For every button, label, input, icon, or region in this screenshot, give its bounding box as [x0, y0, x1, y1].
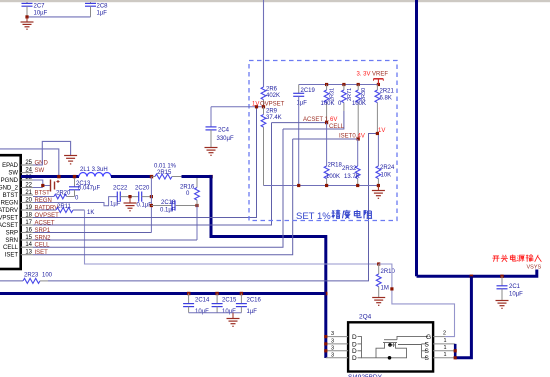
CJK glyph: ru	[535, 255, 542, 262]
svg-text:3. 3V: 3. 3V	[357, 72, 371, 78]
svg-text:3: 3	[331, 345, 334, 351]
dashed outline box	[249, 61, 397, 221]
svg-text:1µF: 1µF	[297, 101, 308, 107]
svg-text:18: 18	[25, 213, 32, 219]
CJK glyph: jing (precision)	[332, 210, 341, 219]
svg-text:S: S	[425, 355, 430, 362]
internal mosfet drawing	[362, 357, 408, 359]
wire top feed to 2R6	[263, 0, 265, 87]
node OVPSET 1V wire	[211, 106, 264, 108]
pin 20 stub	[21, 202, 33, 204]
ground under 2C1	[496, 300, 509, 302]
resistor 2R10 1M	[378, 264, 380, 274]
junction mid ground	[128, 195, 131, 198]
svg-text:BATDRV: BATDRV	[0, 208, 18, 214]
svg-text:SRN: SRN	[5, 238, 18, 244]
svg-text:VREF: VREF	[372, 72, 388, 78]
wire OVPSET row to riser	[33, 107, 257, 218]
svg-text:2L1 3.3uH: 2L1 3.3uH	[80, 167, 108, 173]
resistor 2R31 100K	[326, 85, 328, 91]
junction at thick corner	[209, 175, 212, 178]
svg-text:100: 100	[42, 273, 53, 279]
pin 15 stub	[21, 239, 33, 241]
svg-text:ACSET: ACSET	[0, 223, 18, 229]
svg-text:6V: 6V	[330, 117, 337, 123]
svg-text:2C20: 2C20	[135, 186, 150, 192]
capacitor 2C16 1uF	[240, 294, 242, 304]
svg-text:37.4K: 37.4K	[266, 115, 282, 121]
svg-text:20: 20	[25, 198, 32, 204]
wire SW thick: right of 2R15, corner down, right, down to 2Q4 drains	[182, 177, 326, 359]
svg-text:2R20: 2R20	[56, 191, 71, 197]
svg-text:10µF: 10µF	[222, 309, 236, 315]
wire CELL row to riser	[33, 129, 283, 247]
junction 2C14	[187, 292, 190, 295]
svg-text:BTST: BTST	[35, 191, 51, 197]
svg-text:G: G	[426, 334, 431, 341]
svg-text:BTST: BTST	[3, 193, 19, 199]
svg-text:D: D	[352, 355, 357, 362]
junction VSYS/2C1	[500, 275, 503, 278]
pin 18 stub	[21, 217, 33, 219]
junctions of D stubs on thick rail	[324, 335, 327, 338]
svg-text:2R24: 2R24	[380, 165, 395, 171]
capacitor 2C19 1uF	[298, 85, 300, 94]
wire ISET row to riser	[33, 139, 293, 255]
CJK glyph: du (degree)	[342, 210, 350, 219]
junction at SRP tap	[150, 175, 153, 178]
capacitor 2C7	[26, 2, 28, 3]
resistor 2R23 100	[0, 280, 23, 282]
svg-text:10µF: 10µF	[34, 11, 48, 17]
svg-text:0.047µF: 0.047µF	[78, 186, 100, 192]
wire SRP riser (2R15 left sense)	[150, 177, 152, 233]
node 1V (2R21/2R24 junction)	[376, 132, 379, 135]
svg-text:1µF: 1µF	[97, 11, 108, 17]
wire SW thick segment inductor to 2R15	[111, 175, 153, 178]
node CELL	[283, 111, 344, 129]
resistor 2R18 100K	[326, 123, 328, 166]
svg-text:1V: 1V	[252, 102, 259, 108]
resistor 2R9 37.4K	[263, 107, 265, 115]
pin 14 stub	[21, 246, 33, 248]
sheet top border	[0, 0, 550, 2]
svg-text:GND_2: GND_2	[0, 186, 19, 192]
ground for GND pin	[64, 155, 77, 157]
svg-text:2C4: 2C4	[218, 128, 230, 134]
svg-text:17: 17	[25, 220, 32, 226]
svg-text:100K: 100K	[326, 174, 340, 180]
capacitor 2C15 10uF	[216, 294, 218, 304]
ground between 2C22/2C20	[129, 197, 131, 203]
svg-text:REGN: REGN	[35, 198, 52, 204]
resistor 2R20 (BTST)	[33, 196, 54, 198]
pin 22 stub	[21, 187, 33, 189]
svg-text:6.8K: 6.8K	[380, 96, 392, 102]
svg-text:1K: 1K	[87, 210, 94, 216]
svg-text:2R9: 2R9	[266, 109, 278, 115]
D labels inside	[352, 334, 357, 362]
node ACSET 1.6V	[272, 122, 327, 124]
svg-text:100K: 100K	[352, 101, 366, 107]
IC U2 body	[0, 155, 21, 269]
svg-text:2C18: 2C18	[161, 200, 176, 206]
svg-text:2R16: 2R16	[180, 185, 195, 191]
ground under 2C7	[26, 17, 28, 22]
junction at 2C13 tap	[73, 175, 76, 178]
svg-text:13.7K: 13.7K	[344, 174, 360, 180]
resistor 2R24 10K	[377, 135, 379, 166]
CJK glyph: shu	[526, 255, 533, 262]
resistor 2R6 402K	[261, 87, 266, 100]
svg-text:EPAD: EPAD	[2, 163, 19, 169]
svg-text:2R32: 2R32	[342, 166, 357, 172]
svg-text:ACSET: ACSET	[35, 221, 55, 227]
wire 2C19 down to bottom rail	[298, 96, 300, 185]
pin 21 stub	[21, 194, 33, 196]
svg-text:1: 1	[444, 345, 447, 351]
CJK glyph: dian	[510, 255, 516, 262]
capacitor 2C1 10uF	[501, 276, 503, 286]
svg-text:3: 3	[331, 331, 334, 337]
svg-text:SW: SW	[35, 168, 45, 174]
polarized capacitor (maroon) at pin22/23	[33, 180, 50, 186]
ground on cap bottom rail	[232, 313, 234, 319]
ground at rail right end	[377, 186, 379, 191]
capacitor 2C14 10uF	[188, 294, 190, 304]
resistor 2R21 6.8K	[376, 85, 378, 91]
capacitor 2C4 330uF	[210, 107, 212, 127]
svg-text:330µF: 330µF	[217, 136, 234, 142]
pin 19 stub	[21, 209, 33, 211]
resistor 2R15 0.01 1%	[153, 176, 156, 178]
G / S labels inside	[425, 334, 432, 362]
pin 13 stub	[21, 254, 33, 256]
svg-text:SRN2: SRN2	[35, 236, 52, 242]
svg-text:2: 2	[443, 331, 446, 337]
resistor 2R71	[343, 85, 345, 91]
svg-text:2R71: 2R71	[347, 88, 353, 101]
svg-text:OVPSET: OVPSET	[260, 102, 285, 108]
svg-text:VSYS: VSYS	[527, 265, 542, 271]
junction 2C15	[215, 292, 218, 295]
svg-text:16: 16	[25, 228, 32, 234]
wire thick VSYS vertical from top	[415, 0, 418, 276]
svg-text:2R15: 2R15	[157, 170, 172, 176]
svg-text:CELL: CELL	[35, 243, 51, 249]
svg-text:GND: GND	[35, 161, 49, 167]
junction at 2C18 right / 2R16 bottom	[195, 204, 198, 207]
junction at x58.8	[57, 175, 60, 178]
svg-text:SRP: SRP	[6, 231, 18, 237]
svg-text:10K: 10K	[381, 173, 392, 179]
label switching power input: kai guan dian yuan shu ru	[492, 255, 541, 262]
svg-text:0.1µF: 0.1µF	[160, 208, 176, 214]
svg-text:S: S	[425, 348, 430, 355]
internal S tie	[398, 344, 422, 346]
svg-text:24: 24	[25, 168, 32, 174]
svg-text:2C7: 2C7	[34, 4, 46, 10]
capacitor 2C20 0.1uF	[138, 192, 140, 202]
svg-text:15: 15	[25, 235, 32, 241]
svg-text:SW: SW	[8, 171, 18, 177]
svg-text:2R30: 2R30	[361, 88, 367, 101]
wire cap row middle	[120, 196, 138, 198]
svg-text:ISET: ISET	[35, 250, 49, 256]
wire thick branch down to 2Q4 sources	[455, 276, 471, 358]
svg-text:D: D	[352, 334, 357, 341]
capacitor 2C13 (bootstrap)	[74, 178, 76, 187]
svg-text:2R6: 2R6	[266, 87, 278, 93]
inductor 2L1	[79, 173, 111, 177]
svg-text:2R11: 2R11	[57, 204, 72, 210]
bottom rail in box	[264, 185, 379, 187]
svg-text:13: 13	[25, 250, 32, 256]
svg-text:4V: 4V	[358, 134, 365, 140]
svg-text:2R10: 2R10	[381, 269, 396, 275]
svg-text:19: 19	[25, 205, 32, 211]
wire joining 2C7/2C8 bottoms	[27, 16, 91, 18]
ground under 2C4	[205, 147, 218, 149]
svg-text:CELL: CELL	[329, 124, 345, 130]
pin 16 stub	[21, 232, 33, 234]
wire thick VSYS horizontal	[417, 270, 537, 277]
svg-text:2C8: 2C8	[97, 4, 109, 10]
svg-text:SRP1: SRP1	[35, 228, 51, 234]
pin numbers	[25, 160, 32, 256]
svg-text:1M: 1M	[381, 286, 389, 292]
wire GND pin up-over to ground	[33, 141, 71, 165]
capacitor 2C8	[90, 2, 92, 3]
wire SRP1 row	[33, 232, 151, 234]
CJK glyph: zu (resist)	[364, 210, 372, 218]
junction 2C16	[240, 292, 243, 295]
svg-text:BATDRV: BATDRV	[35, 206, 59, 212]
svg-text:402K: 402K	[266, 93, 280, 99]
resistor 2R32 13.7K	[357, 139, 359, 166]
svg-text:10µF: 10µF	[195, 309, 209, 315]
svg-text:3: 3	[331, 352, 334, 358]
svg-text:2R23: 2R23	[24, 273, 39, 279]
VREF top rail	[299, 84, 379, 86]
pin 25 stub	[21, 164, 33, 166]
svg-text:22: 22	[25, 183, 32, 189]
pin 23 stub	[21, 179, 33, 181]
svg-text:OVPSET: OVPSET	[35, 213, 60, 219]
junction thick at T2 rail	[324, 292, 327, 295]
pin 24 stub	[21, 172, 33, 174]
svg-text:25: 25	[25, 160, 32, 166]
svg-text:2C22: 2C22	[113, 186, 128, 192]
svg-text:1: 1	[444, 338, 447, 344]
svg-text:D: D	[352, 348, 357, 355]
wire joining cap bottoms	[189, 312, 242, 314]
wire SRN2 row	[33, 239, 197, 241]
junction on SRP riser at cap row	[150, 195, 153, 198]
D pin stubs and numbers	[326, 336, 348, 338]
internal D bracket	[358, 337, 362, 358]
svg-text:1µF: 1µF	[247, 309, 258, 315]
svg-text:2R21: 2R21	[380, 89, 395, 95]
junction at 2R10 top	[377, 262, 380, 265]
svg-text:REGN: REGN	[1, 201, 18, 207]
wire REGN rail from left edge down to SW node	[0, 149, 59, 177]
svg-text:SET 1%: SET 1%	[296, 211, 331, 222]
junction on SRP riser at 2C18 row	[150, 204, 153, 207]
wire thick battery rail	[0, 292, 326, 295]
svg-text:1V: 1V	[378, 128, 385, 134]
svg-text:100K: 100K	[321, 101, 335, 107]
svg-text:2R31: 2R31	[330, 88, 336, 101]
junction dot on gate riser	[390, 287, 393, 290]
CJK glyph: dian (electric)	[354, 210, 361, 218]
wire ACSET row to riser	[33, 123, 272, 225]
junction	[25, 15, 28, 18]
wire SW thick segment from IC to inductor	[21, 175, 79, 178]
wire thick source tie	[454, 344, 457, 358]
resistor 2R30 100K	[357, 85, 359, 91]
ground under 2R10	[372, 297, 385, 299]
svg-text:2Q4: 2Q4	[359, 314, 372, 321]
svg-text:CELL: CELL	[3, 245, 19, 251]
resistor 2R11 1K on BATDRV	[33, 209, 56, 211]
capacitor 2C18 0.1uF	[151, 205, 172, 207]
CJK glyph: kai	[492, 256, 499, 262]
wire BATDRV drop to gate line	[85, 210, 379, 264]
svg-text:10µF: 10µF	[509, 292, 523, 298]
pin 17 stub	[21, 224, 33, 226]
svg-text:14: 14	[25, 242, 32, 248]
svg-text:2C15: 2C15	[222, 298, 237, 304]
svg-text:PGND: PGND	[1, 178, 19, 184]
svg-text:1µF: 1µF	[110, 202, 121, 208]
wire SRN riser	[196, 206, 198, 241]
right pin stubs	[433, 336, 445, 338]
wire 2R23 to 1V riser	[48, 134, 377, 281]
wire cap row to SRP riser	[142, 196, 152, 198]
svg-text:2C19: 2C19	[301, 88, 316, 94]
svg-text:ISET0.: ISET0.	[339, 134, 358, 140]
svg-text:ACSET 1.: ACSET 1.	[303, 117, 330, 123]
node ISET 0.4V	[293, 138, 359, 140]
svg-text:2C14: 2C14	[195, 298, 210, 304]
CJK glyph: yuan	[517, 255, 524, 262]
svg-text:2C1: 2C1	[509, 284, 521, 290]
svg-text:ISET: ISET	[5, 253, 19, 259]
resistor 2R16 0 (SRN sense)	[196, 178, 198, 188]
junction VSYS/2Q4 branch	[470, 275, 473, 278]
net name labels (red) on pins	[35, 161, 60, 257]
svg-text:21: 21	[25, 190, 32, 196]
svg-text:0.01 1%: 0.01 1%	[154, 164, 177, 170]
CJK glyph: guan	[501, 255, 508, 262]
wire REGN to cap row	[33, 197, 117, 206]
capacitor 2C22 1uF	[116, 192, 118, 202]
svg-text:OVPSET: OVPSET	[0, 216, 18, 222]
svg-text:2R18: 2R18	[328, 163, 343, 169]
pin names inside IC	[0, 163, 19, 259]
svg-text:2C16: 2C16	[247, 298, 262, 304]
wire gate drive to 2Q4 G	[379, 264, 455, 337]
power symbol 3.3V VREF	[377, 79, 379, 85]
svg-text:3: 3	[331, 339, 334, 345]
svg-text:1: 1	[444, 352, 447, 358]
